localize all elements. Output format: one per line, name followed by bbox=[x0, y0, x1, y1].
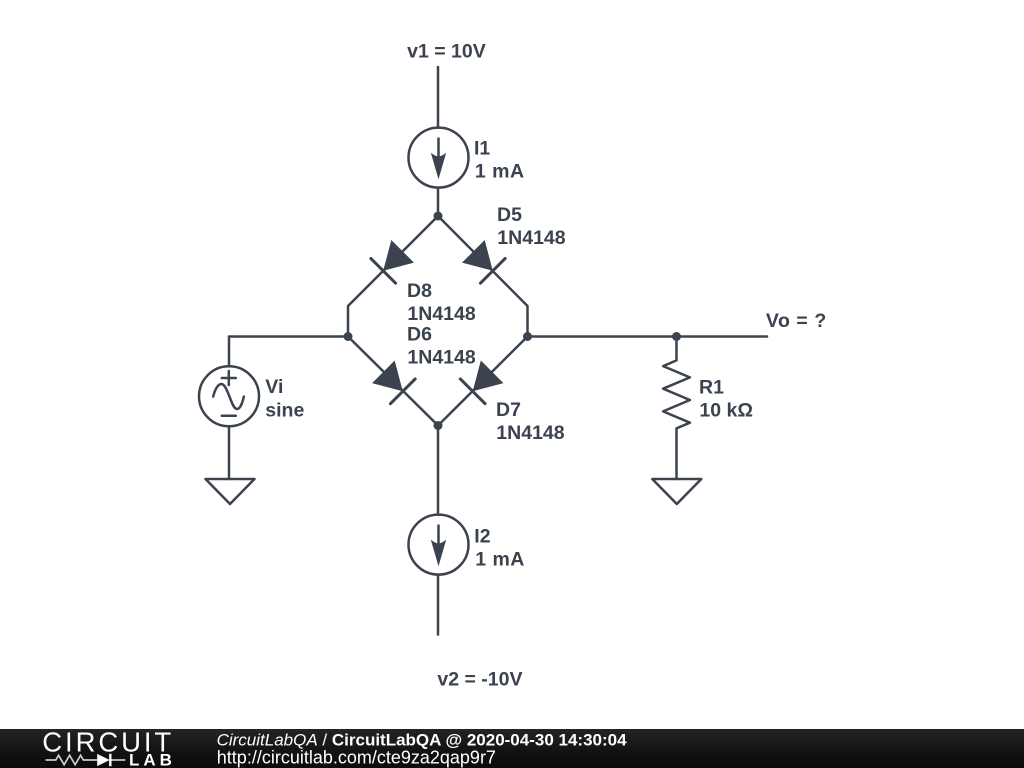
svg-text:LAB: LAB bbox=[129, 751, 176, 768]
svg-text:D7: D7 bbox=[496, 399, 521, 421]
svg-text:Vi: Vi bbox=[265, 376, 283, 398]
svg-text:R1: R1 bbox=[699, 376, 724, 398]
svg-text:http://circuitlab.com/cte9za2q: http://circuitlab.com/cte9za2qap9r7 bbox=[217, 748, 496, 768]
svg-text:1N4148: 1N4148 bbox=[496, 422, 564, 444]
svg-text:sine: sine bbox=[265, 400, 304, 422]
svg-text:D5: D5 bbox=[497, 204, 522, 226]
svg-text:1 mA: 1 mA bbox=[475, 549, 525, 571]
svg-text:I1: I1 bbox=[474, 138, 490, 160]
svg-text:1N4148: 1N4148 bbox=[407, 303, 475, 325]
svg-text:1 mA: 1 mA bbox=[475, 161, 525, 183]
svg-text:Vo = ?: Vo = ? bbox=[766, 310, 827, 332]
svg-text:v2 = -10V: v2 = -10V bbox=[437, 668, 522, 690]
svg-text:I2: I2 bbox=[474, 526, 490, 548]
svg-text:D8: D8 bbox=[407, 280, 432, 302]
svg-text:1N4148: 1N4148 bbox=[497, 227, 565, 249]
svg-text:1N4148: 1N4148 bbox=[407, 347, 475, 369]
svg-text:D6: D6 bbox=[407, 324, 432, 346]
svg-text:10 kΩ: 10 kΩ bbox=[699, 399, 753, 421]
svg-text:v1 = 10V: v1 = 10V bbox=[407, 41, 486, 63]
